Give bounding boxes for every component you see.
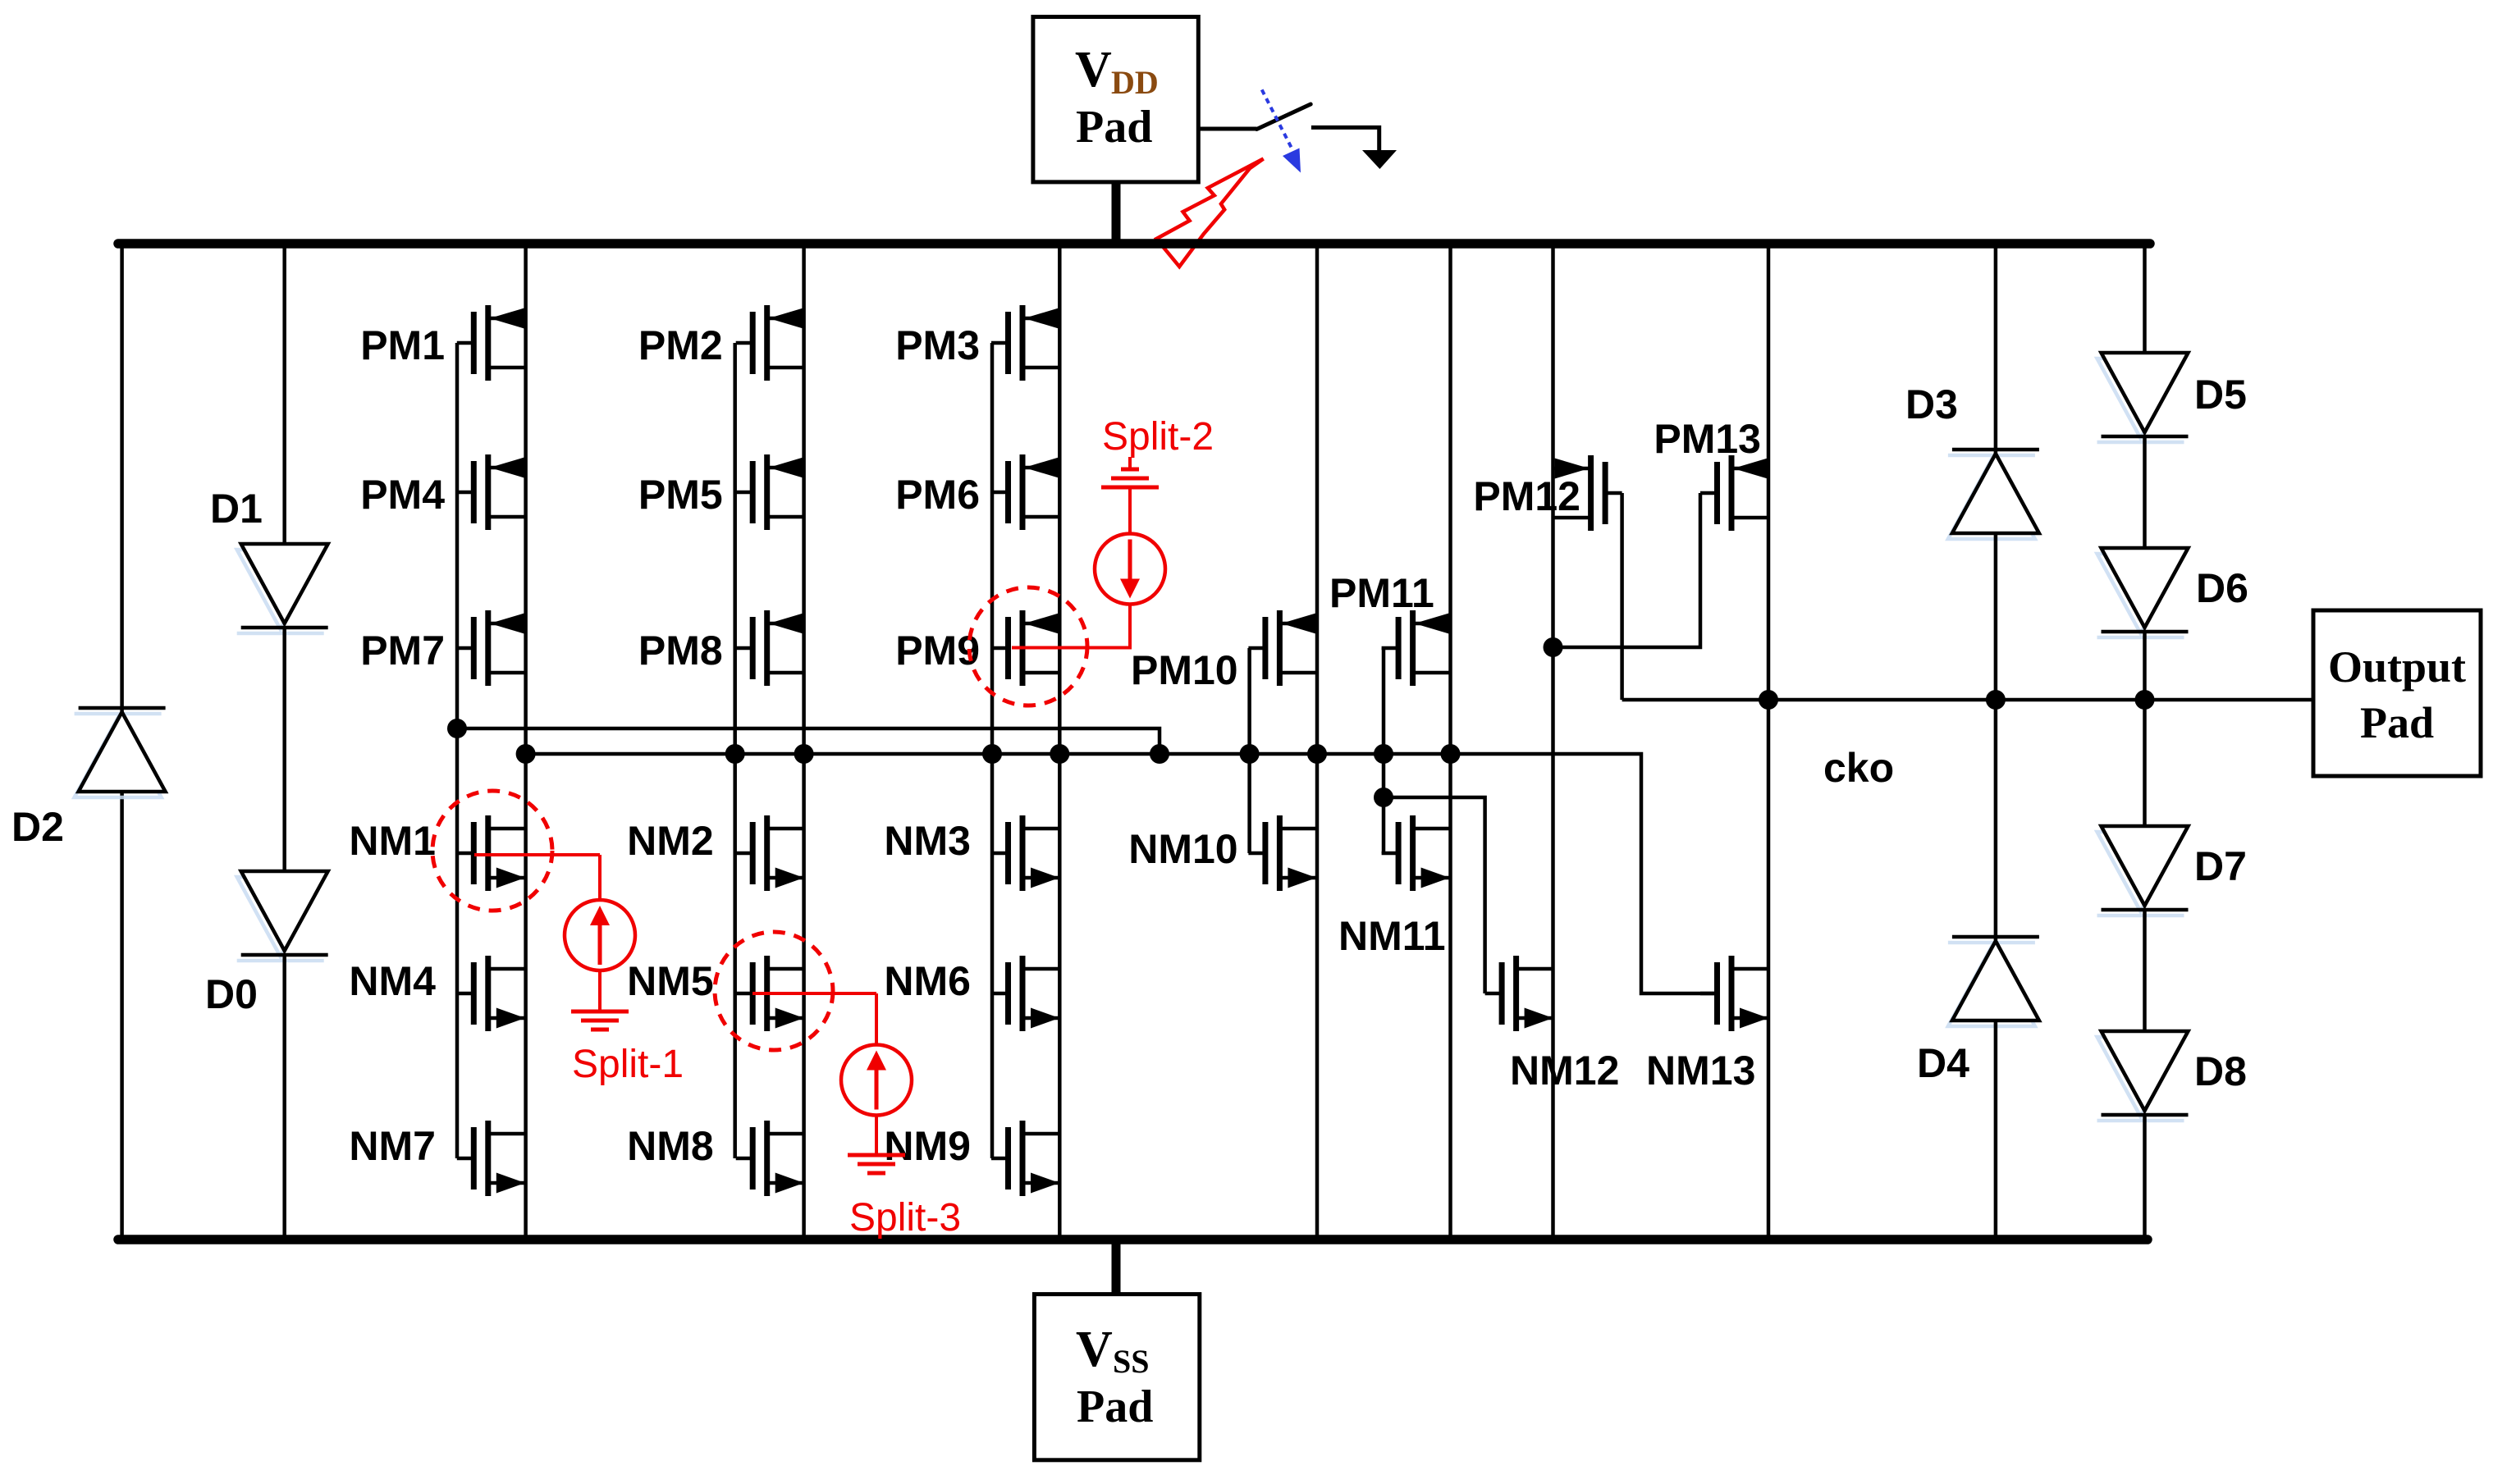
svg-text:PM10: PM10 xyxy=(1131,647,1238,693)
transistor NM12 xyxy=(1485,956,1554,1031)
wire D0 to bottom rail xyxy=(282,953,286,1240)
transistor NM7 xyxy=(457,1121,526,1196)
svg-text:NM11: NM11 xyxy=(1338,913,1446,959)
diode D3 xyxy=(1948,450,2039,539)
power pad VDD box xyxy=(1033,17,1198,182)
dashed circle around NM1 xyxy=(432,791,552,911)
diode D1 xyxy=(237,544,328,633)
ground arrow under switch xyxy=(1362,150,1397,169)
dashed circle around NM5 xyxy=(715,932,833,1050)
diode D6 xyxy=(2097,548,2189,637)
transistor PM3 xyxy=(991,305,1060,381)
transistor NM2 xyxy=(736,815,805,891)
wire left edge (D2 column) xyxy=(120,244,124,1240)
svg-text:Pad: Pad xyxy=(1077,1381,1153,1432)
wire gate bus column 1 xyxy=(455,343,460,1158)
svg-text:Split-1: Split-1 xyxy=(572,1043,684,1086)
transistor NM1 xyxy=(457,815,526,891)
wire NM11 gate to NM12 gate xyxy=(1384,797,1485,993)
svg-text:D1: D1 xyxy=(210,486,263,532)
svg-text:PM4: PM4 xyxy=(360,472,445,518)
wire PM12 drain to PM13 gate xyxy=(1553,493,1701,647)
svg-text:D6: D6 xyxy=(2196,565,2248,611)
svg-text:NM3: NM3 xyxy=(884,818,971,864)
wire VDD top rail xyxy=(118,239,2150,249)
wire Split-3 to ground xyxy=(875,1115,878,1155)
svg-text:PM1: PM1 xyxy=(360,322,445,368)
wire PM12 gate down to output line xyxy=(1620,493,1624,700)
wire Split-2 to PM9 gate xyxy=(1012,604,1130,648)
transistor NM3 xyxy=(991,815,1060,891)
svg-text:NM8: NM8 xyxy=(627,1123,714,1169)
svg-text:Pad: Pad xyxy=(1076,102,1152,153)
diode D0 xyxy=(237,871,328,961)
wire D4 to bottom rail xyxy=(1994,1021,1998,1240)
junction PM10 gate bus / node line xyxy=(1240,744,1260,764)
transistor NM5 xyxy=(736,956,805,1031)
transistor PM10 xyxy=(1248,610,1317,686)
diode D8 xyxy=(2097,1031,2189,1121)
transistor PM7 xyxy=(457,610,526,686)
transistor PM5 xyxy=(736,454,805,530)
power pad VDD label xyxy=(1075,42,1159,153)
wire Split-2 ground to current source xyxy=(1128,487,1132,535)
transistor PM4 xyxy=(457,454,526,530)
wire VDD pad stem xyxy=(1112,181,1121,244)
junction col2 gates / node line xyxy=(725,744,745,764)
power pad VSS box xyxy=(1034,1295,1199,1460)
junction PM13 drain / output line xyxy=(1759,690,1778,710)
transistor PM12 xyxy=(1553,455,1622,531)
wire PM11/NM11 gate bus xyxy=(1382,648,1386,853)
junction PM10 drain / node line xyxy=(1307,744,1327,764)
wire Split-3 down to current source xyxy=(875,993,878,1046)
svg-text:cko: cko xyxy=(1823,745,1894,791)
diode D5 xyxy=(2097,353,2189,442)
svg-text:PM6: PM6 xyxy=(895,472,980,518)
junction col2 drain / node line xyxy=(794,744,814,764)
ground Split-3 xyxy=(848,1155,905,1173)
wire D5 to D6 xyxy=(2143,435,2147,548)
junction D3-D4 / output line xyxy=(1986,690,2006,710)
wire Split-1 to ground xyxy=(598,970,602,1011)
wire Split-1 down to current source xyxy=(598,855,602,901)
svg-text:V: V xyxy=(1075,42,1112,98)
diode D4 xyxy=(1948,937,2039,1026)
junction PM12 drain / PM13 gate wire xyxy=(1544,637,1563,657)
current source Split-1 xyxy=(565,900,635,970)
svg-text:SS: SS xyxy=(1113,1343,1150,1380)
svg-text:PM13: PM13 xyxy=(1654,416,1761,462)
svg-text:NM6: NM6 xyxy=(884,958,971,1004)
svg-text:NM2: NM2 xyxy=(627,818,714,864)
junction D6-D7 / output line xyxy=(2135,690,2155,710)
transistor NM9 xyxy=(991,1121,1060,1196)
current source Split-3 xyxy=(841,1045,912,1116)
wire upper gate line (col1 gates to node line) xyxy=(457,728,1160,754)
junction upper line joins node line xyxy=(1150,744,1169,764)
junction PM11 drain / node line xyxy=(1441,744,1461,764)
ground Split-2 (inverted) xyxy=(1128,457,1132,469)
transistor PM6 xyxy=(991,454,1060,530)
wire D8 to bottom rail xyxy=(2143,1113,2147,1240)
svg-text:PM8: PM8 xyxy=(638,628,723,674)
wire D3 column upper xyxy=(1994,244,1998,454)
svg-text:Pad: Pad xyxy=(2360,698,2434,747)
current source Split-2 xyxy=(1095,534,1165,605)
transistor PM9 xyxy=(991,610,1060,686)
pad Output label xyxy=(2328,642,2466,747)
wire VSS pad stem xyxy=(1112,1240,1121,1295)
diode D7 xyxy=(2097,826,2189,916)
wire D3 to D4 xyxy=(1994,533,1998,940)
svg-text:PM7: PM7 xyxy=(360,628,445,674)
wire D1 to D0 xyxy=(282,626,286,871)
blue dashed arrow across switch xyxy=(1262,89,1292,149)
transistor PM8 xyxy=(736,610,805,686)
wire rail to D5 xyxy=(2143,244,2147,353)
svg-text:NM13: NM13 xyxy=(1646,1048,1755,1094)
svg-text:PM9: PM9 xyxy=(895,628,980,674)
transistor NM4 xyxy=(457,956,526,1031)
svg-text:V: V xyxy=(1076,1322,1113,1377)
transistor NM8 xyxy=(736,1121,805,1196)
wire D1 column upper xyxy=(282,244,286,544)
wire output line (cko net) xyxy=(1622,698,2313,702)
wire gate bus column 2 xyxy=(733,343,737,1158)
transistor NM11 xyxy=(1382,815,1451,891)
svg-text:PM3: PM3 xyxy=(895,322,980,368)
ground Split-1 xyxy=(571,1011,629,1030)
power pad VSS label xyxy=(1076,1322,1153,1432)
svg-text:PM5: PM5 xyxy=(638,472,723,518)
transistor PM13 xyxy=(1700,455,1769,531)
wire VDD pad to switch xyxy=(1198,127,1256,131)
svg-text:NM12: NM12 xyxy=(1510,1048,1619,1094)
wire D7 to D8 xyxy=(2143,908,2147,1031)
junction col1 gates / upper line xyxy=(447,719,467,738)
wire drain chain column 2 xyxy=(802,244,806,1240)
svg-text:PM12: PM12 xyxy=(1473,473,1580,519)
junction col1 drain / node line xyxy=(516,744,536,764)
svg-text:NM4: NM4 xyxy=(349,958,436,1004)
svg-text:NM1: NM1 xyxy=(349,818,436,864)
wire drain chain column 3 xyxy=(1058,244,1062,1240)
transistor PM11 xyxy=(1382,610,1451,686)
junction col3 gates / node line xyxy=(982,744,1002,764)
wire VSS bottom rail xyxy=(118,1235,2148,1244)
transistor NM13 xyxy=(1700,956,1769,1031)
ESD lightning bolt xyxy=(1156,159,1263,267)
svg-text:Split-3: Split-3 xyxy=(849,1196,961,1240)
switch blade xyxy=(1256,104,1311,130)
svg-text:Output: Output xyxy=(2328,642,2466,692)
svg-text:D2: D2 xyxy=(11,804,64,850)
transistor NM6 xyxy=(991,956,1060,1031)
svg-text:DD: DD xyxy=(1111,64,1159,101)
svg-text:NM9: NM9 xyxy=(884,1123,971,1169)
svg-text:D4: D4 xyxy=(1917,1040,1969,1086)
svg-text:NM10: NM10 xyxy=(1128,826,1237,872)
svg-text:D3: D3 xyxy=(1905,381,1958,427)
pad Output box xyxy=(2313,610,2481,776)
svg-text:Split-2: Split-2 xyxy=(1102,415,1214,459)
svg-text:PM2: PM2 xyxy=(638,322,723,368)
svg-text:D5: D5 xyxy=(2194,372,2247,418)
transistor PM1 xyxy=(457,305,526,381)
wire Split-1 from NM1 gate xyxy=(474,853,600,856)
svg-text:D8: D8 xyxy=(2194,1048,2247,1094)
diode D2 xyxy=(75,708,166,797)
wire D6 to D7 xyxy=(2143,630,2147,826)
junction PM11 gate bus / node line xyxy=(1374,744,1393,764)
svg-text:D0: D0 xyxy=(205,971,258,1017)
wire PM10/NM10 drain chain xyxy=(1315,244,1320,1240)
wire drain chain column 1 xyxy=(524,244,528,1240)
wire PM13/NM13 drain chain xyxy=(1767,244,1771,1240)
svg-text:NM7: NM7 xyxy=(349,1123,436,1169)
junction col3 drain / node line xyxy=(1050,744,1069,764)
svg-text:NM5: NM5 xyxy=(627,958,714,1004)
wire gate bus column 3 xyxy=(990,343,995,1158)
dashed circle around PM9 xyxy=(969,587,1087,705)
wire PM10/NM10 gate bus xyxy=(1247,648,1251,853)
svg-text:D7: D7 xyxy=(2194,843,2247,889)
node line (predriver output net) xyxy=(526,754,1717,993)
wire switch to ground arrow xyxy=(1311,127,1379,150)
svg-text:PM11: PM11 xyxy=(1329,570,1434,616)
junction NM11 gate branch xyxy=(1374,788,1393,807)
transistor PM2 xyxy=(736,305,805,381)
wire PM11/NM11 drain chain xyxy=(1448,244,1452,1240)
wire Split-3 from NM5 gate xyxy=(752,992,876,995)
transistor NM10 xyxy=(1248,815,1317,891)
wire PM12/NM12 drain chain xyxy=(1551,244,1555,1240)
